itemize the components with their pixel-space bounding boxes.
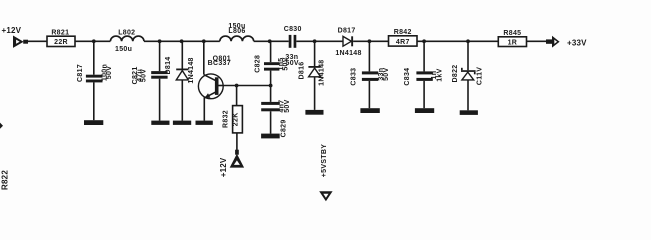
- svg-text:50V: 50V: [106, 66, 113, 79]
- svg-text:+12V: +12V: [219, 157, 228, 177]
- svg-text:1N4148: 1N4148: [188, 57, 195, 83]
- capacitor C829: [261, 86, 280, 134]
- svg-text:50V: 50V: [141, 69, 148, 82]
- svg-text:1N4148: 1N4148: [318, 60, 325, 86]
- svg-text:D817: D817: [338, 27, 356, 34]
- supply arrow +12V below R832: [230, 150, 244, 168]
- wire rail L806 to C830: [254, 40, 289, 42]
- zener diode D822: [461, 41, 476, 110]
- wire rail R821 to L802: [75, 40, 110, 42]
- inductor L802: [110, 36, 144, 41]
- ground of Q801 emitter: [196, 121, 213, 125]
- resistor R821: [47, 36, 75, 46]
- wire rail from +12V arrow to R821: [28, 40, 48, 42]
- wire rail L802 to L806: [144, 40, 220, 42]
- svg-text:C834: C834: [404, 68, 411, 86]
- svg-text:D822: D822: [452, 65, 459, 83]
- svg-text:C830: C830: [284, 26, 302, 33]
- svg-text:C11V: C11V: [476, 67, 483, 85]
- capacitor C821: [151, 41, 167, 120]
- svg-text:L806: L806: [228, 28, 245, 35]
- wire base of Q801 to C828 node: [223, 85, 271, 87]
- svg-text:+5VSTBY: +5VSTBY: [321, 144, 328, 177]
- junction node D816 tap: [313, 39, 317, 43]
- svg-text:+12V: +12V: [2, 26, 22, 35]
- svg-text:C817: C817: [77, 64, 84, 82]
- diode D817: [343, 36, 353, 46]
- supply arrow +12V input: [13, 36, 28, 48]
- svg-text:1kV: 1kV: [437, 68, 444, 81]
- svg-text:50V: 50V: [383, 67, 390, 80]
- resistor R842: [389, 36, 418, 46]
- resistor R845: [498, 37, 526, 47]
- svg-text:22R: 22R: [54, 39, 68, 46]
- capacitor C833: [362, 41, 378, 108]
- ground of D814: [173, 121, 191, 125]
- svg-text:R845: R845: [503, 30, 521, 37]
- junction node D822 tap: [466, 39, 470, 43]
- junction node C821 tap: [158, 39, 162, 43]
- svg-text:1R: 1R: [508, 39, 518, 46]
- supply arrow +5VSTBY: [319, 191, 332, 201]
- svg-text:R822: R822: [1, 170, 10, 190]
- junction node Q801 collector tap: [202, 39, 206, 43]
- supply arrow +33V output: [546, 36, 560, 48]
- svg-text:BC337: BC337: [208, 60, 231, 67]
- svg-text:L802: L802: [118, 30, 135, 37]
- junction node D814 tap: [180, 39, 184, 43]
- ground of C829: [261, 134, 280, 139]
- svg-text:R842: R842: [394, 29, 412, 36]
- wire rail R845 to +33V arrow: [527, 40, 547, 42]
- svg-text:50V: 50V: [283, 57, 290, 70]
- ground of C821: [151, 121, 169, 125]
- capacitor C817: [86, 41, 103, 120]
- diode D816: [308, 41, 320, 110]
- svg-text:1N4148: 1N4148: [335, 50, 361, 57]
- svg-text:4R7: 4R7: [396, 39, 410, 46]
- wire arrow stub R822 net at left edge: [0, 123, 3, 129]
- svg-text:C829: C829: [280, 119, 287, 137]
- svg-text:+33V: +33V: [567, 38, 587, 47]
- junction node C834 tap: [422, 39, 426, 43]
- wire rail R842 to R845: [417, 40, 498, 42]
- capacitor C828: [264, 41, 279, 85]
- ground of D822: [460, 110, 478, 115]
- svg-text:50V: 50V: [284, 99, 291, 112]
- junction node C817 tap: [92, 39, 96, 43]
- ground of C833: [360, 108, 379, 113]
- diode D814: [176, 41, 188, 120]
- wire rail D817 to R842: [353, 40, 388, 42]
- svg-text:C828: C828: [255, 55, 262, 73]
- ground of D816: [305, 110, 323, 115]
- svg-text:C833: C833: [350, 68, 357, 86]
- svg-text:22K: 22K: [233, 112, 240, 126]
- ground of C817: [84, 120, 103, 125]
- capacitor C834: [416, 41, 432, 108]
- junction node C828-C829: [269, 84, 273, 88]
- transistor Q801: [198, 41, 223, 120]
- junction node C833 tap: [368, 39, 372, 43]
- svg-text:D814: D814: [165, 57, 172, 75]
- wire rail C830 to D817: [296, 40, 343, 42]
- capacitor C830: [289, 35, 297, 48]
- svg-text:R821: R821: [51, 29, 69, 36]
- svg-text:D816: D816: [299, 62, 306, 80]
- junction node R832 tap: [235, 84, 239, 88]
- junction node C828 tap: [268, 39, 272, 43]
- inductor L806: [220, 36, 254, 41]
- svg-text:R832: R832: [222, 110, 229, 128]
- resistor R832: [233, 86, 243, 152]
- ground of C834: [415, 108, 434, 113]
- svg-text:150u: 150u: [115, 46, 132, 53]
